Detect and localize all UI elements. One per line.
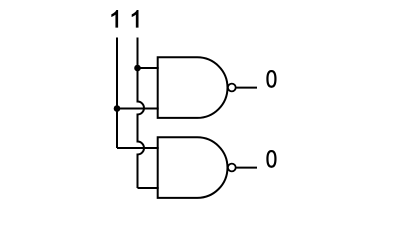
input label B value 1 <box>132 10 138 27</box>
output label of U1 value 0 <box>267 71 275 87</box>
wire from junction A to U1 bottom input <box>117 108 159 110</box>
output label of U2 value 0 <box>267 151 275 167</box>
wire A vertical from input A <box>116 38 118 149</box>
wire from junction B to U1 top input <box>138 67 159 69</box>
junction dot on wire A <box>114 105 121 112</box>
NAND gate U1 body <box>158 57 228 118</box>
wire from wire B corner to U2 bottom input <box>138 187 159 189</box>
output wire of U2 <box>236 167 257 169</box>
output wire of U1 <box>236 87 257 89</box>
wire from wire A corner to U2 top input <box>117 147 159 149</box>
input label A value 1 <box>112 10 118 27</box>
wire B vertical from input B with hops <box>138 38 145 189</box>
junction dot on wire B <box>134 65 141 72</box>
NAND gate U1 inversion bubble <box>228 84 236 92</box>
NAND gate U2 body <box>158 137 228 198</box>
NAND gate U2 inversion bubble <box>228 164 236 172</box>
